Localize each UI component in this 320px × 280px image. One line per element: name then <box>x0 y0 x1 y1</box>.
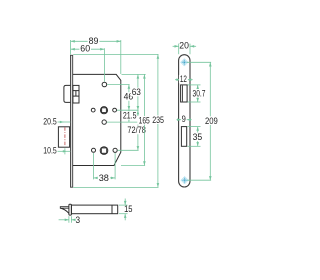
deadbolt cutout (front view) <box>181 127 186 147</box>
dim 9 (front) <box>177 113 192 124</box>
svg-text:35: 35 <box>193 131 203 142</box>
svg-text:63: 63 <box>132 86 141 97</box>
dim 60 <box>71 43 105 54</box>
faceplate (side view) <box>71 55 73 187</box>
latch cage <box>73 85 79 103</box>
deadbolt <box>58 127 69 147</box>
dim 3 (latch detail) <box>59 214 81 225</box>
dim 38 <box>94 172 116 183</box>
deadbolt centerline (red) <box>64 127 66 146</box>
svg-text:20: 20 <box>179 40 189 51</box>
svg-text:209: 209 <box>205 115 218 126</box>
spindle side hole right <box>113 108 117 112</box>
svg-text:9: 9 <box>182 113 186 124</box>
lock body outline <box>73 74 121 165</box>
dim 20.5 <box>43 115 70 126</box>
svg-text:20.5: 20.5 <box>43 115 56 126</box>
latch bolt head <box>64 85 71 102</box>
dim 235 <box>151 55 165 188</box>
latch detail flange <box>69 204 72 215</box>
dim 21.5 <box>122 110 138 122</box>
svg-text:235: 235 <box>152 114 164 125</box>
dim 35 (front) <box>192 127 204 147</box>
faceplate (front view) <box>179 55 190 187</box>
latch cutout (front view) <box>181 85 188 102</box>
dim 165 <box>137 74 151 165</box>
lower hole <box>102 120 106 124</box>
extension lines (green) left view <box>71 40 159 187</box>
svg-text:60: 60 <box>80 43 90 54</box>
cylinder side hole left <box>92 148 96 152</box>
dim 15 (latch detail) <box>119 199 133 221</box>
svg-text:38: 38 <box>99 172 109 183</box>
svg-text:165: 165 <box>139 115 150 126</box>
svg-text:3: 3 <box>76 214 81 225</box>
spindle side hole left <box>91 108 95 112</box>
dim 30.7 (front) <box>191 85 207 102</box>
top screw hole <box>102 82 107 87</box>
svg-text:15: 15 <box>124 203 132 214</box>
svg-text:21.5: 21.5 <box>123 110 137 121</box>
dim 209 (front) <box>204 62 218 180</box>
cylinder follower (square in circle) <box>100 147 108 155</box>
svg-text:72/78: 72/78 <box>127 124 145 135</box>
svg-text:12: 12 <box>180 73 187 84</box>
spindle follower (square in circle) <box>100 107 107 114</box>
dim 72/78 <box>127 110 147 150</box>
top screw symbol (blue) <box>181 59 189 67</box>
latch detail bolt head <box>60 207 69 214</box>
dim 46 <box>123 85 135 111</box>
cylinder side hole right <box>113 148 117 152</box>
extension lines (green) front view <box>179 44 211 181</box>
dim 89 <box>71 35 121 46</box>
svg-text:30.7: 30.7 <box>193 88 206 99</box>
dim 10.5 <box>43 145 70 156</box>
bottom screw symbol (blue) <box>181 176 189 184</box>
svg-text:10.5: 10.5 <box>43 145 56 156</box>
dim 20 (front) <box>173 40 197 51</box>
dim 63 <box>131 74 143 110</box>
dim 12 (front) <box>175 73 193 84</box>
latch detail body <box>71 205 117 214</box>
